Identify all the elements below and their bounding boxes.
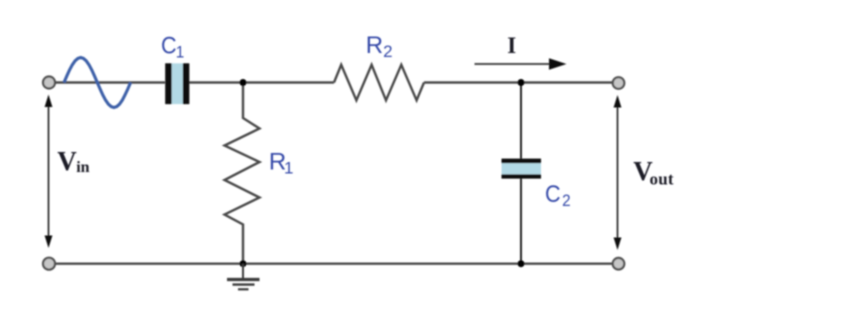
svg-text:I: I — [507, 33, 516, 58]
ground — [227, 264, 260, 290]
svg-text:C1: C1 — [161, 32, 184, 62]
output terminal top — [613, 77, 625, 89]
junction node at R2/C2 — [518, 79, 525, 86]
wire bottom rail — [55, 263, 613, 265]
svg-text:C2: C2 — [545, 180, 571, 210]
input terminal bottom — [43, 258, 55, 270]
wire from C1 to R2 — [189, 81, 334, 83]
svg-text:R1: R1 — [269, 149, 294, 178]
resistor R1 — [225, 83, 260, 264]
svg-text:in: in — [76, 159, 89, 176]
Vin measurement arrow — [45, 95, 53, 249]
resistor R2 — [334, 65, 424, 101]
junction node C2/bottom rail — [518, 260, 525, 267]
svg-text:R2: R2 — [366, 32, 393, 61]
capacitor C1 — [165, 63, 189, 104]
svg-text:out: out — [650, 170, 674, 189]
capacitor C2 — [502, 83, 542, 264]
junction node at C1/R1 — [240, 79, 247, 86]
svg-text:V: V — [57, 146, 77, 176]
wire from R2 to output terminal — [424, 81, 613, 83]
Vout measurement arrow — [614, 95, 622, 250]
junction node R1/bottom rail — [240, 260, 247, 267]
input terminal top — [43, 77, 55, 89]
source sine wave — [64, 58, 131, 108]
output terminal bottom — [613, 258, 625, 270]
current arrow I — [475, 58, 567, 70]
wire top-left from input terminal to C1 — [55, 81, 165, 83]
